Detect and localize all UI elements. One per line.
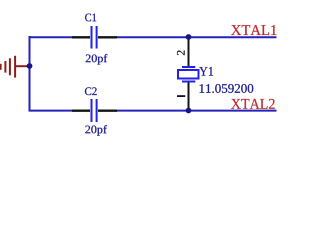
pin 2 of Y1 (177, 50, 185, 55)
wire top horizontal net XTAL1 (29, 36, 277, 38)
capacitor C2 (72, 99, 117, 122)
node junction Y1 pin1 to bottom wire (186, 108, 192, 114)
node junction Y1 pin2 to top wire (186, 34, 192, 40)
net label XTAL2 (231, 99, 275, 109)
label C2 (85, 87, 97, 95)
capacitor C1 (72, 26, 117, 49)
value 20pf of C2 (85, 125, 107, 136)
ground (1, 56, 30, 78)
net label XTAL1 (231, 25, 276, 35)
crystal Y1 (178, 37, 199, 111)
value 11.059200 of Y1 (200, 84, 254, 93)
value 20pf of C1 (86, 54, 108, 65)
pin 1 of Y1 (177, 95, 185, 97)
wire left vertical (29, 36, 31, 112)
node junction ground to left wire (27, 63, 33, 69)
label Y1 (199, 67, 213, 76)
wire bottom horizontal net XTAL2 (29, 110, 277, 112)
label C1 (85, 14, 96, 22)
